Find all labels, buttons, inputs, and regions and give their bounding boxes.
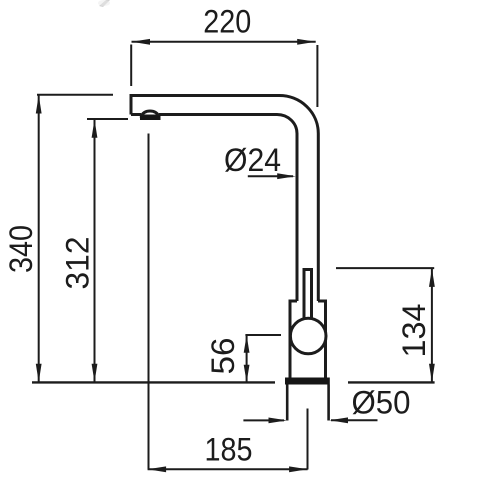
dimension 340 bbox=[37, 95, 113, 382]
handle lever stem bbox=[304, 270, 312, 323]
ball joint circle bbox=[290, 318, 326, 354]
svg-text:134: 134 bbox=[396, 304, 432, 358]
outlet center line bbox=[148, 134, 150, 470]
dimension 312 bbox=[87, 119, 128, 382]
dimension 134 bbox=[336, 268, 434, 382]
faucet spout outline bbox=[131, 95, 318, 301]
spout aerator dome bbox=[142, 111, 159, 116]
dimension 220 bbox=[131, 42, 317, 107]
label diameter 50 with arrows bbox=[243, 419, 284, 421]
svg-text:340: 340 bbox=[3, 225, 39, 273]
body center line bbox=[307, 409, 309, 470]
svg-text:Ø24: Ø24 bbox=[224, 142, 281, 178]
dimension 185 bbox=[148, 468, 308, 470]
watermark smudge bbox=[98, 0, 110, 7]
faucet body bbox=[290, 301, 326, 379]
svg-text:312: 312 bbox=[59, 237, 95, 290]
base plate bbox=[285, 378, 330, 385]
svg-text:185: 185 bbox=[205, 432, 253, 468]
label diameter 24 with leader bbox=[248, 175, 293, 177]
svg-text:56: 56 bbox=[205, 338, 241, 375]
dimension 56 bbox=[245, 335, 281, 382]
base cylinder bbox=[287, 385, 328, 421]
counter base line bbox=[32, 381, 435, 383]
spout aerator bar bbox=[140, 116, 161, 121]
svg-text:220: 220 bbox=[203, 3, 251, 39]
svg-text:Ø50: Ø50 bbox=[352, 385, 411, 421]
